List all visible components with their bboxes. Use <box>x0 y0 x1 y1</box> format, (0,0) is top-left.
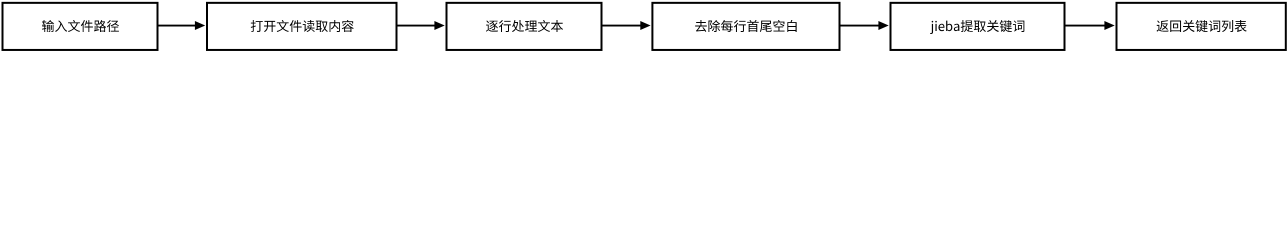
node N6 box: 返回关键词列表 <box>1117 3 1286 50</box>
node N2 box: 打开文件读取内容 <box>207 3 397 50</box>
arrow N5 to N6 head <box>1104 21 1114 30</box>
node N5 label: jieba提取关键词 <box>930 20 1024 34</box>
arrow N3 to N4 shaft <box>602 25 642 27</box>
node N3 label: 逐行处理文本 <box>486 20 563 32</box>
background <box>0 0 1288 51</box>
node N2 label: 打开文件读取内容 <box>251 20 354 32</box>
arrow N4 to N5 shaft <box>840 25 880 27</box>
node N4 box: 去除每行首尾空白 <box>652 3 839 50</box>
arrow N5 to N6 shaft <box>1065 25 1106 27</box>
arrow N1 to N2 shaft <box>158 25 196 27</box>
arrow N2 to N3 head <box>434 21 444 30</box>
node N5 box: jieba提取关键词 <box>891 3 1065 50</box>
node N4 label: 去除每行首尾空白 <box>695 20 797 32</box>
node N3 box: 逐行处理文本 <box>447 3 602 50</box>
node N6 label: 返回关键词列表 <box>1157 20 1247 32</box>
node N1 label: 输入文件路径 <box>42 20 119 32</box>
arrow N1 to N2 head <box>195 21 205 30</box>
arrow N2 to N3 shaft <box>397 25 436 27</box>
arrow N3 to N4 head <box>640 21 650 30</box>
node N1 box: 输入文件路径 <box>3 3 158 50</box>
arrow N4 to N5 head <box>878 21 888 30</box>
